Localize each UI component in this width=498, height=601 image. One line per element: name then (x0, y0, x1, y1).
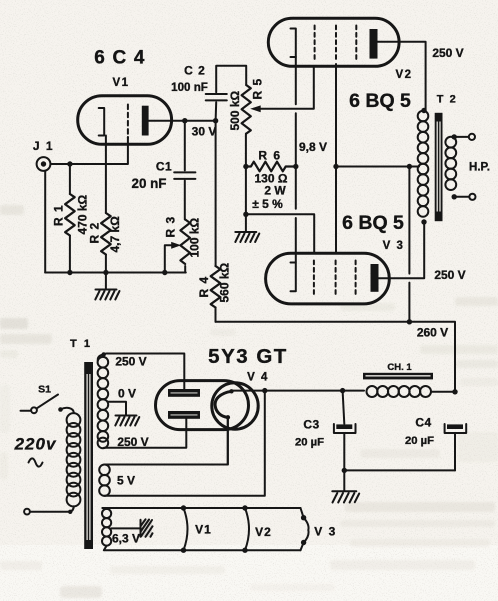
V3 cathode (291, 263, 296, 292)
svg-text:220v: 220v (14, 435, 57, 454)
node R6 left (243, 164, 248, 169)
svg-text:C3: C3 (303, 418, 319, 432)
svg-text:6 C 4: 6 C 4 (94, 48, 145, 69)
T1 core (84, 362, 93, 549)
V2 plate wire (378, 42, 426, 111)
svg-text:9,8 V: 9,8 V (299, 140, 327, 154)
capacitor C1 (184, 121, 186, 171)
HP terminal bottom (454, 196, 469, 198)
capacitor C2 (215, 102, 218, 120)
svg-text:20 µF: 20 µF (295, 437, 324, 449)
ground 0V (116, 415, 137, 417)
svg-text:C1: C1 (156, 160, 172, 174)
resistor R2 (101, 213, 111, 255)
V1 grid (dashed) (127, 105, 129, 139)
heater rail bottom (104, 549, 301, 551)
svg-text:R 1: R 1 (52, 204, 66, 226)
svg-text:R 4: R 4 (197, 276, 211, 298)
triode V1 envelope (78, 96, 172, 145)
svg-text:100 kΩ: 100 kΩ (188, 217, 202, 257)
5Y3 plate 2 (168, 411, 200, 419)
ground under R2 (105, 273, 107, 289)
resistor R6 (246, 162, 295, 172)
svg-text:250 V: 250 V (117, 435, 148, 449)
node screen rail (333, 164, 338, 169)
svg-text:500 kΩ: 500 kΩ (228, 90, 242, 130)
V2 grid g1 (dashed) (314, 26, 316, 61)
svg-text:J 1: J 1 (33, 139, 54, 153)
svg-text:V2: V2 (395, 69, 412, 81)
svg-text:R 5: R 5 (251, 78, 265, 100)
potentiometer R5 (242, 85, 251, 134)
heater rail top (102, 507, 300, 509)
R5 wiper arrow wire (260, 67, 314, 109)
choke core (363, 373, 433, 380)
HP terminal top (454, 136, 469, 138)
wire screen to T2 center (336, 166, 419, 168)
resistor R4 (215, 121, 217, 266)
main ground (343, 470, 345, 490)
V2 grid g3 (dashed) (355, 26, 357, 61)
node cathode/R6 (293, 164, 298, 169)
V1 cathode (99, 108, 105, 136)
V2 cathode line (with hops) (295, 57, 297, 262)
svg-text:V2: V2 (255, 525, 272, 539)
V3 grid g2 (dashed) (335, 261, 337, 297)
svg-text:V1: V1 (195, 523, 212, 537)
capacitor C3 (343, 391, 345, 424)
V3 plate (371, 264, 379, 292)
svg-text:20 nF: 20 nF (132, 176, 167, 191)
svg-text:V 3: V 3 (383, 240, 405, 252)
V1 plate (142, 106, 149, 136)
svg-text:6,3 V: 6,3 V (112, 532, 140, 546)
T1 primary coil (61, 408, 74, 413)
svg-text:CH. 1: CH. 1 (387, 362, 412, 373)
svg-text:6 BQ 5: 6 BQ 5 (342, 212, 404, 234)
node grid wire left (243, 212, 248, 217)
svg-text:30 V: 30 V (192, 125, 217, 139)
V3 plate wire (379, 222, 425, 278)
svg-text:C4: C4 (415, 416, 431, 430)
svg-text:5Y3 GT: 5Y3 GT (208, 345, 288, 368)
V2 grid g2 (dashed) (335, 26, 337, 61)
wire J1 to V1 grid (51, 137, 128, 164)
wire B+ drop (with hop) (408, 167, 410, 322)
HV center tap 0V (108, 402, 127, 415)
chassis hatch (141, 520, 153, 537)
T1 5V winding (99, 465, 110, 476)
wire filter bottom rail (344, 469, 455, 471)
capacitor C4 (447, 424, 463, 429)
svg-text:260 V: 260 V (417, 326, 448, 340)
svg-text:R 6: R 6 (258, 149, 281, 163)
svg-text:250 V: 250 V (115, 355, 146, 369)
jack J1 (37, 157, 51, 171)
wire 260V rail (216, 322, 456, 392)
node C2/R4 (213, 118, 218, 123)
wire J1 drop (44, 171, 46, 273)
resistor R1 (69, 164, 71, 194)
svg-text:6 BQ 5: 6 BQ 5 (349, 90, 411, 112)
wire grid bias (R5 wiper to g2 line of V3 grid wire) (246, 214, 314, 253)
svg-text:250 V: 250 V (432, 46, 463, 60)
choke CH1 coil (367, 386, 378, 397)
svg-text:0 V: 0 V (118, 387, 136, 401)
V1 plate wire (149, 120, 216, 122)
svg-text:250 V: 250 V (434, 268, 465, 282)
svg-text:20 µF: 20 µF (405, 435, 434, 447)
V1 cathode wire (105, 136, 107, 214)
heater V1 tap (181, 505, 186, 510)
svg-text:R 2: R 2 (88, 222, 102, 244)
pentode V2 envelope (268, 18, 399, 66)
5Y3 plate 1 (168, 389, 200, 397)
svg-text:V1: V1 (112, 77, 129, 89)
mains terminal (24, 509, 30, 515)
pentode V3 envelope (266, 253, 390, 304)
T1 6,3V winding (102, 509, 111, 518)
svg-text:5 V: 5 V (117, 474, 135, 488)
V3 grid g3 (dashed) (355, 261, 357, 297)
T2 secondary coil (445, 137, 456, 148)
svg-text:100 nF: 100 nF (171, 81, 208, 94)
svg-text:4,7 kΩ: 4,7 kΩ (108, 216, 122, 253)
potentiometer R3 (180, 220, 190, 265)
mains AC sign (29, 458, 43, 466)
5Y3 filament (215, 391, 231, 417)
HV top wire to 5Y3 plate (104, 354, 185, 390)
svg-text:S1: S1 (38, 384, 51, 396)
V2 plate (370, 29, 378, 59)
HV bottom wire to 5Y3 plate (104, 419, 186, 448)
node grid/J1 (67, 161, 72, 166)
svg-text:2 W: 2 W (264, 184, 286, 198)
svg-text:C 2: C 2 (184, 64, 206, 78)
heater V2 tap (242, 505, 247, 510)
wire ground rail (45, 272, 186, 274)
heater V3 tap (301, 508, 309, 550)
V2 screen line to V3 (335, 64, 337, 253)
V3 grid g1 (dashed) (313, 261, 315, 297)
svg-text:H.P.: H.P. (469, 162, 490, 174)
T1 HV secondary (102, 352, 106, 356)
svg-text:R 3: R 3 (164, 216, 178, 238)
filament to 5V winding (227, 417, 229, 464)
svg-text:V 4: V 4 (247, 372, 269, 384)
5Y3 envelope (156, 381, 249, 430)
node B+ tap (407, 164, 412, 169)
ground under R5 (235, 231, 256, 233)
svg-text:T 1: T 1 (70, 338, 92, 350)
svg-text:V 3: V 3 (314, 525, 337, 539)
6,3V center tap to chassis (111, 527, 141, 529)
svg-text:± 5 %: ± 5 % (252, 197, 283, 211)
T2 primary coil (421, 108, 426, 113)
V2 cathode (291, 29, 296, 58)
mains switch S1 (21, 410, 32, 412)
T2 core (435, 113, 443, 221)
wire V4 output (232, 390, 365, 392)
R3 wiper arrow (165, 245, 172, 272)
svg-text:T 2: T 2 (437, 94, 457, 106)
svg-text:560 kΩ: 560 kΩ (218, 262, 232, 302)
node C1 tap (182, 118, 187, 123)
